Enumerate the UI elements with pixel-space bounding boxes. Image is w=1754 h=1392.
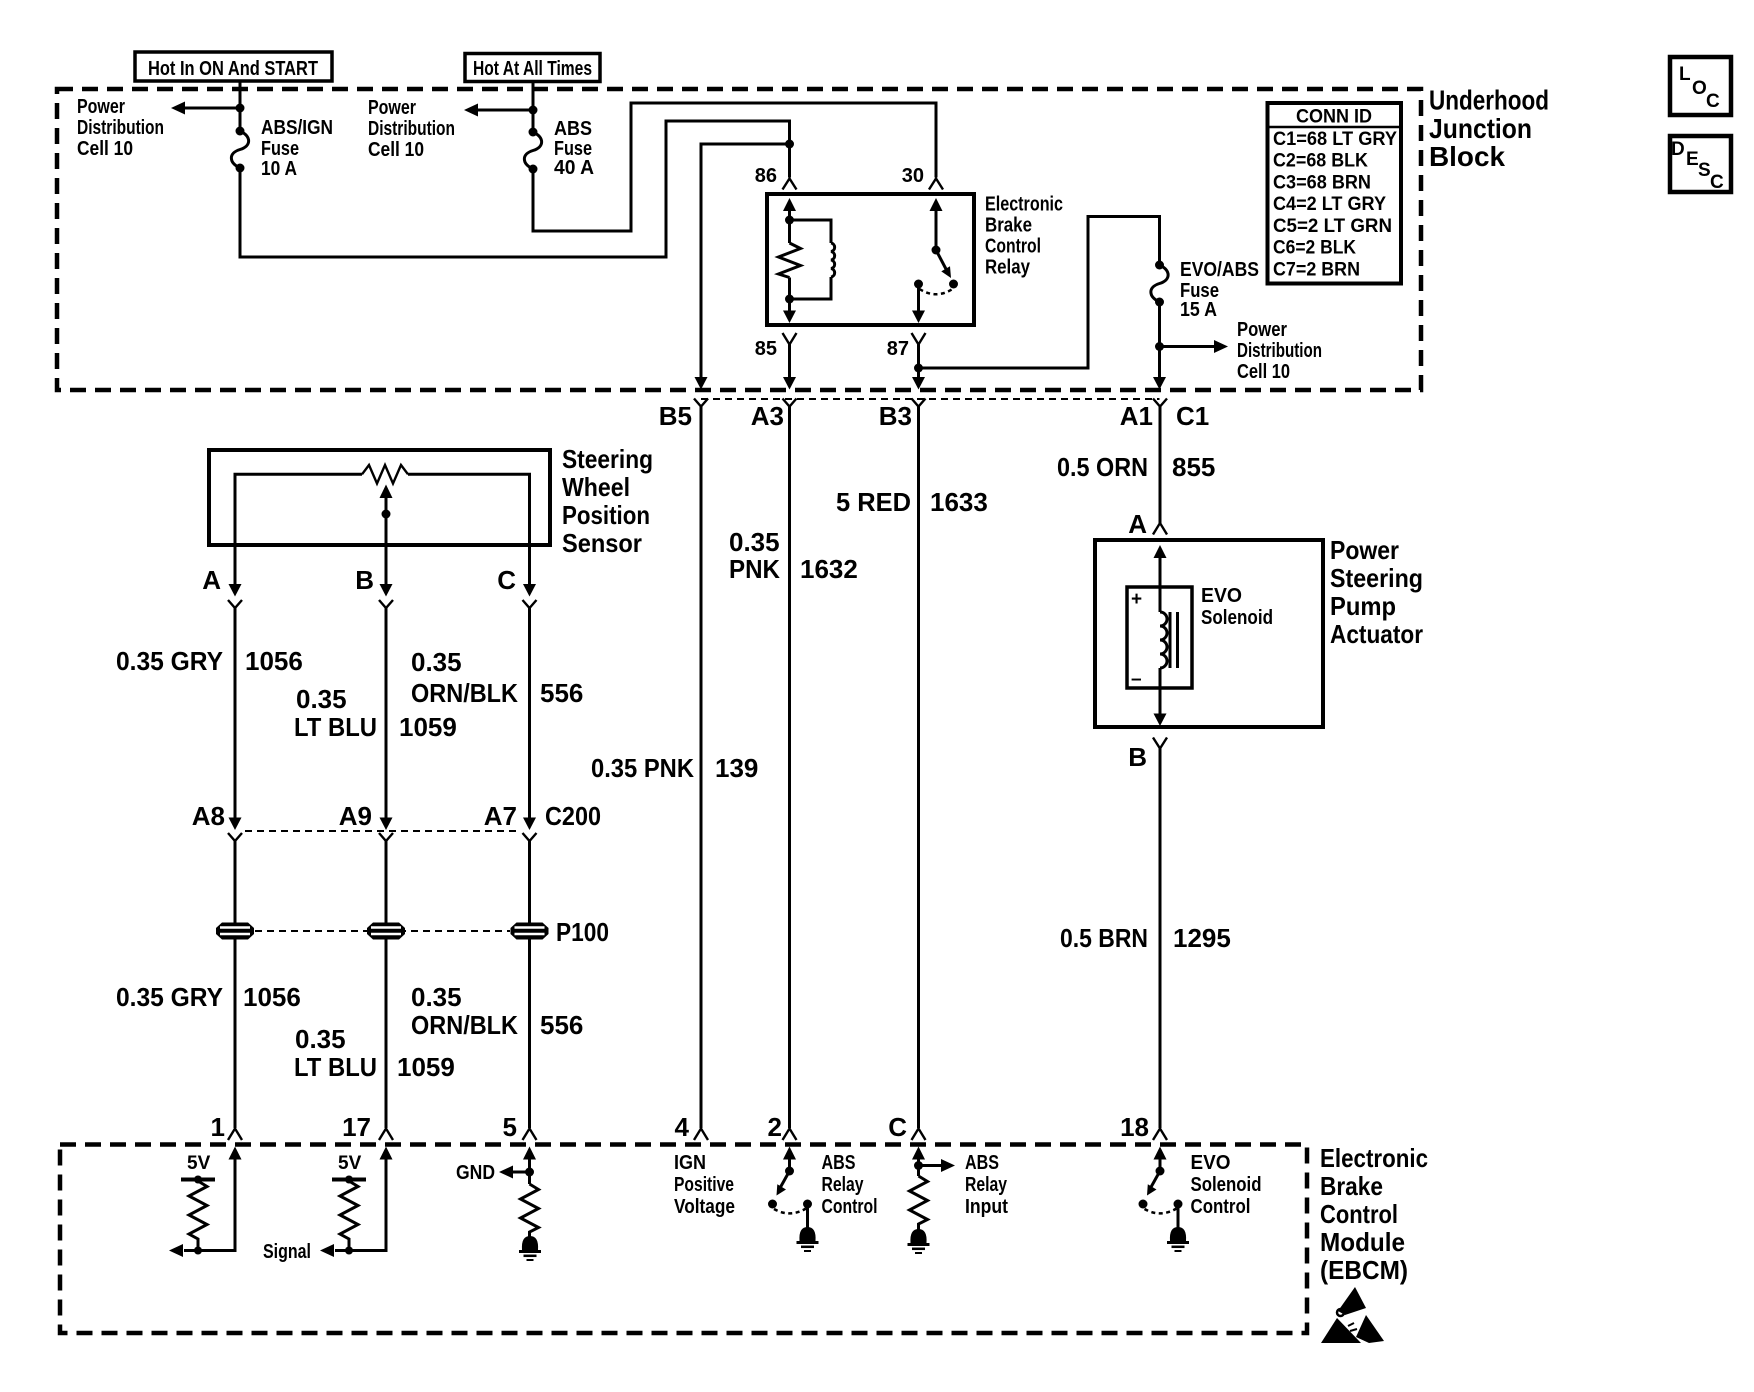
ESD sensitivity symbol — [1321, 1287, 1384, 1343]
wire: branch to B5 — [701, 144, 790, 378]
svg-text:0.35: 0.35 — [411, 647, 462, 677]
svg-text:ABS: ABS — [554, 118, 592, 140]
svg-text:Pump: Pump — [1330, 591, 1396, 621]
fuse F3 EVO/ABS 15A — [1151, 261, 1168, 307]
fuse F1 ABS/IGN 10A — [231, 127, 248, 173]
resistor R2 (pull-up) — [340, 1181, 358, 1251]
svg-text:Input: Input — [965, 1196, 1008, 1218]
arrow down at block border (A3) — [783, 377, 796, 390]
svg-text:ABS/IGN: ABS/IGN — [261, 117, 333, 139]
wire A1/C1 run to actuator — [1159, 407, 1162, 524]
svg-text:0.35: 0.35 — [411, 982, 462, 1012]
connector chevron pin 85 — [783, 333, 797, 345]
relay switch branch: up arrow from pin 30 — [930, 198, 943, 211]
wire down to solenoid — [1159, 554, 1162, 612]
junction dot (branch to B5) — [785, 140, 794, 149]
svg-text:Electronic: Electronic — [985, 194, 1063, 216]
svg-text:556: 556 — [540, 1010, 583, 1040]
5V supply bar — [181, 1178, 215, 1182]
svg-text:B5: B5 — [659, 401, 692, 431]
arrow left (signal) — [320, 1244, 334, 1257]
svg-text:0.35 PNK: 0.35 PNK — [591, 753, 694, 783]
pin 17 interior: up arrow — [380, 1147, 393, 1160]
connector chevron actuator pin A — [1153, 523, 1167, 535]
svg-text:L: L — [1679, 64, 1691, 85]
svg-text:2: 2 — [768, 1112, 782, 1142]
svg-text:A: A — [1128, 509, 1147, 539]
wire A down to EBCM — [234, 841, 237, 1128]
DESC reference box — [1670, 136, 1731, 193]
harness connector row dashed line — [701, 398, 1160, 400]
svg-text:855: 855 — [1172, 452, 1215, 482]
svg-text:Hot In ON And START: Hot In ON And START — [148, 58, 318, 80]
svg-text:1056: 1056 — [245, 646, 303, 676]
svg-text:18: 18 — [1120, 1112, 1149, 1142]
svg-text:Relay: Relay — [985, 257, 1031, 279]
svg-text:C3=68 BRN: C3=68 BRN — [1273, 172, 1371, 193]
wire pin 5 down — [528, 1154, 531, 1184]
svg-text:Positive: Positive — [674, 1174, 734, 1196]
svg-text:Steering: Steering — [1330, 563, 1423, 593]
Underhood Junction Block dashed border — [57, 89, 1421, 390]
svg-text:PNK: PNK — [729, 554, 780, 584]
svg-text:40 A: 40 A — [554, 157, 594, 179]
svg-text:1056: 1056 — [243, 982, 301, 1012]
svg-text:Cell 10: Cell 10 — [77, 138, 133, 160]
potentiometer track — [235, 474, 530, 545]
svg-text:Relay: Relay — [965, 1174, 1008, 1196]
svg-text:1295: 1295 — [1173, 923, 1231, 953]
svg-text:Block: Block — [1429, 141, 1505, 172]
svg-text:ORN/BLK: ORN/BLK — [411, 678, 518, 708]
ground (pin 2) — [797, 1227, 819, 1251]
svg-text:Cell 10: Cell 10 — [1237, 361, 1290, 383]
pin 5 interior: up arrow — [523, 1147, 536, 1160]
svg-text:Control: Control — [985, 236, 1041, 258]
wire down from solenoid — [1159, 668, 1162, 715]
svg-text:0.5 ORN: 0.5 ORN — [1057, 452, 1148, 482]
node: coil top junction dot — [785, 216, 794, 225]
svg-text:A8: A8 — [192, 801, 225, 831]
connector chevron EBCM pin 18 — [1153, 1129, 1167, 1141]
arrow down inside actuator — [1154, 714, 1167, 727]
node: switch pivot dot — [932, 246, 941, 255]
svg-text:1632: 1632 — [800, 554, 858, 584]
arrow down at block border (A1) — [1153, 377, 1166, 390]
svg-text:0.35 GRY: 0.35 GRY — [116, 982, 223, 1012]
svg-text:B: B — [355, 565, 374, 595]
node dot — [345, 1176, 353, 1184]
svg-text:1059: 1059 — [397, 1052, 455, 1082]
splice P100 on wire B — [367, 923, 405, 940]
connector chevron EBCM pin 17 — [379, 1129, 393, 1141]
svg-text:Junction: Junction — [1429, 113, 1532, 144]
wire contact to ground — [806, 1204, 809, 1228]
arrow down wire C at C200 — [523, 818, 536, 831]
wire A down to C200 — [234, 608, 237, 818]
arrow down at block border (B5) — [695, 377, 708, 390]
svg-text:Brake: Brake — [985, 215, 1032, 237]
arrow to Power Distribution (left) — [171, 102, 240, 115]
wire — [788, 207, 791, 243]
svg-text:A3: A3 — [751, 401, 784, 431]
svg-text:(EBCM): (EBCM) — [1320, 1255, 1408, 1285]
svg-text:Power: Power — [77, 96, 125, 118]
svg-text:Electronic: Electronic — [1320, 1143, 1428, 1173]
svg-text:Relay: Relay — [822, 1174, 865, 1196]
relay coil branch: up arrow — [783, 198, 796, 211]
svg-text:17: 17 — [342, 1112, 371, 1142]
wire to switch pivot — [1159, 1154, 1162, 1171]
solenoid coil — [1160, 612, 1167, 668]
svg-text:Solenoid: Solenoid — [1201, 607, 1273, 629]
node: thrown contact dot — [1139, 1200, 1148, 1209]
svg-text:A: A — [202, 565, 221, 595]
switch blade with arrowhead (pin 18) — [1147, 1171, 1160, 1196]
wire contact to ground — [1177, 1204, 1180, 1228]
svg-text:D: D — [1671, 139, 1685, 160]
connector chevron A1/C1 — [1153, 399, 1167, 407]
wire pin 17 down and left — [335, 1154, 386, 1251]
svg-text:EVO: EVO — [1201, 585, 1242, 607]
svg-text:C200: C200 — [545, 801, 601, 831]
connector chevron wire B — [379, 600, 393, 608]
connector chevron A3 — [783, 399, 797, 407]
svg-text:Power: Power — [368, 97, 416, 119]
resistor R4 — [910, 1176, 928, 1230]
splice P100 on wire C — [511, 923, 549, 940]
svg-text:Power: Power — [1330, 535, 1399, 565]
connector chevron EBCM pin 4 — [694, 1129, 708, 1141]
svg-text:GND: GND — [456, 1162, 495, 1184]
EBCM dashed border — [60, 1145, 1307, 1334]
connector chevron pin 86 — [783, 179, 797, 190]
svg-text:EVO/ABS: EVO/ABS — [1180, 259, 1259, 281]
svg-text:0.35: 0.35 — [296, 684, 347, 714]
svg-text:Wheel: Wheel — [562, 472, 630, 502]
node: junction dot to EVO/ABS fuse — [914, 364, 923, 373]
svg-text:Underhood: Underhood — [1429, 85, 1549, 116]
node: pivot dot — [1156, 1167, 1165, 1176]
svg-text:1059: 1059 — [399, 712, 457, 742]
svg-text:C: C — [1706, 91, 1720, 112]
node: pin 87 contact dot — [914, 280, 923, 289]
svg-text:Hot At All Times: Hot At All Times — [473, 58, 592, 80]
pin 1 interior: up arrow — [229, 1147, 242, 1160]
svg-text:Distribution: Distribution — [368, 118, 455, 140]
wire pin C down — [917, 1154, 920, 1176]
svg-text:C: C — [497, 565, 516, 595]
potentiometer resistor zigzag — [362, 465, 408, 484]
dashed travel arc — [920, 289, 953, 294]
svg-text:4: 4 — [675, 1112, 690, 1142]
resistor (relay coil suppression) — [779, 243, 801, 278]
connector chevron B5 — [694, 399, 708, 407]
svg-text:C7=2 BRN: C7=2 BRN — [1273, 259, 1360, 280]
connector chevron actuator pin B — [1153, 738, 1167, 749]
relay coil L1 — [790, 220, 835, 299]
splice P100 on wire A — [216, 923, 254, 940]
arrow left (pin 1 output) — [169, 1244, 183, 1257]
arrow down wire B at C200 — [380, 818, 393, 831]
svg-text:LT BLU: LT BLU — [294, 712, 377, 742]
svg-text:CONN ID: CONN ID — [1296, 107, 1372, 128]
svg-text:85: 85 — [755, 338, 777, 360]
node dot — [194, 1247, 202, 1255]
svg-text:Brake: Brake — [1320, 1171, 1383, 1201]
svg-text:1: 1 — [211, 1112, 225, 1142]
svg-text:0.35: 0.35 — [729, 527, 780, 557]
power source box "Hot At All Times" — [465, 54, 600, 82]
svg-text:5: 5 — [503, 1112, 517, 1142]
junction dot — [236, 104, 245, 113]
Power Steering Pump Actuator box — [1095, 540, 1323, 727]
arrow down wire A — [229, 584, 242, 597]
svg-text:B3: B3 — [879, 401, 912, 431]
svg-text:C4=2 LT GRY: C4=2 LT GRY — [1273, 194, 1386, 215]
svg-text:139: 139 — [715, 753, 758, 783]
svg-text:A7: A7 — [484, 801, 517, 831]
solenoid core bars — [1169, 612, 1172, 668]
arrow down at block border (B3) — [912, 377, 925, 390]
svg-text:S: S — [1698, 160, 1711, 181]
svg-text:30: 30 — [902, 165, 924, 187]
svg-text:B: B — [1128, 742, 1147, 772]
connector chevron A8 — [228, 833, 242, 841]
svg-text:C: C — [888, 1112, 907, 1142]
svg-text:Power: Power — [1237, 319, 1287, 341]
arrow down wire A at C200 — [229, 818, 242, 831]
svg-text:C: C — [1710, 172, 1724, 193]
svg-text:–: – — [1131, 669, 1142, 690]
wire from Hot In ON And START down — [239, 81, 242, 131]
svg-text:C6=2 BLK: C6=2 BLK — [1273, 238, 1356, 259]
svg-text:5V: 5V — [338, 1153, 362, 1174]
Steering Wheel Position Sensor box — [209, 450, 550, 545]
ground (pin 5) — [519, 1236, 541, 1260]
node: coil bottom junction dot — [785, 295, 794, 304]
potentiometer wiper arrow — [380, 485, 393, 546]
ground (pin 18) — [1167, 1227, 1189, 1251]
svg-text:5V: 5V — [187, 1153, 211, 1174]
svg-text:15 A: 15 A — [1180, 299, 1217, 321]
connector chevron pin 87 — [912, 333, 926, 345]
connector chevron A7 — [523, 833, 537, 841]
svg-text:Cell 10: Cell 10 — [368, 139, 424, 161]
wire C from sensor — [528, 545, 531, 585]
connector chevron wire C — [523, 600, 537, 608]
wire to switch pivot — [788, 1154, 791, 1171]
wire C down to C200 — [528, 608, 531, 818]
arrow left GND — [499, 1166, 530, 1179]
svg-text:O: O — [1692, 78, 1707, 99]
pin C interior: up arrow — [912, 1147, 925, 1160]
node dot — [345, 1247, 353, 1255]
svg-text:Control: Control — [1320, 1199, 1398, 1229]
svg-text:0.5 BRN: 0.5 BRN — [1060, 923, 1148, 953]
svg-text:C1: C1 — [1176, 401, 1209, 431]
EVO solenoid box — [1127, 587, 1192, 688]
ground (pin C) — [908, 1229, 930, 1253]
wire: ABS/IGN fuse to relay pin 86 — [240, 121, 790, 257]
svg-text:Distribution: Distribution — [77, 117, 164, 139]
arrow to Power Distribution (middle) — [464, 104, 533, 117]
wire A3 run to EBCM — [788, 407, 791, 1129]
svg-text:E: E — [1686, 149, 1699, 170]
wire contact down — [917, 284, 920, 312]
node: junction dot — [1155, 342, 1164, 351]
fuse F2 ABS 40A — [524, 128, 541, 174]
svg-text:C5=2 LT GRN: C5=2 LT GRN — [1273, 216, 1392, 237]
wire A from sensor — [234, 545, 237, 585]
arrow up inside actuator — [1154, 545, 1167, 558]
5V supply bar — [332, 1178, 366, 1182]
connector chevron pin 30 — [929, 179, 943, 190]
svg-text:Position: Position — [562, 500, 650, 530]
wire below fuse — [1158, 302, 1161, 379]
wire — [935, 207, 938, 250]
arrow down wire C — [523, 584, 536, 597]
svg-text:A1: A1 — [1120, 401, 1153, 431]
wire C down to EBCM — [528, 841, 531, 1128]
svg-text:A9: A9 — [339, 801, 372, 831]
svg-text:Module: Module — [1320, 1227, 1405, 1257]
svg-text:C2=68 BLK: C2=68 BLK — [1273, 151, 1368, 172]
node: thrown contact dot — [768, 1200, 777, 1209]
switch blade with arrowhead (pin 2) — [777, 1171, 790, 1196]
C200 connector dashed line — [245, 830, 519, 832]
svg-text:+: + — [1131, 589, 1142, 610]
node: thrown contact dot — [949, 280, 958, 289]
svg-text:Control: Control — [822, 1196, 878, 1218]
relay K1 Electronic Brake Control Relay box — [767, 194, 974, 325]
wire B5 run to EBCM — [700, 407, 703, 1129]
dashed travel arc — [1145, 1209, 1177, 1214]
wire B down to EBCM pin 18 — [1159, 749, 1162, 1129]
svg-text:0.35: 0.35 — [295, 1024, 346, 1054]
svg-text:IGN: IGN — [674, 1152, 706, 1174]
pin 2 interior: up arrow — [783, 1147, 796, 1160]
node: pivot dot — [785, 1167, 794, 1176]
svg-text:Sensor: Sensor — [562, 528, 642, 558]
svg-text:Actuator: Actuator — [1330, 619, 1423, 649]
wire: pin 87 junction to EVO/ABS fuse — [919, 217, 1160, 369]
svg-text:Steering: Steering — [562, 444, 653, 474]
svg-text:5 RED: 5 RED — [836, 487, 911, 517]
connector chevron EBCM pin C — [912, 1129, 926, 1141]
connector chevron A9 — [379, 833, 393, 841]
wire — [788, 278, 791, 314]
svg-text:0.35 GRY: 0.35 GRY — [116, 646, 223, 676]
arrow down to pin 87 — [912, 311, 925, 324]
switch blade with arrowhead — [936, 250, 951, 278]
svg-text:86: 86 — [755, 165, 777, 187]
svg-text:Solenoid: Solenoid — [1191, 1174, 1262, 1196]
connector chevron B3 — [912, 399, 926, 407]
LOC reference box — [1670, 57, 1731, 115]
wire: ABS fuse to relay pin 30 — [533, 103, 936, 231]
wire pin 1 down and left — [184, 1154, 235, 1251]
wire B3 run to EBCM — [917, 407, 920, 1129]
node dot — [914, 1161, 923, 1170]
svg-text:ABS: ABS — [965, 1152, 999, 1174]
connector chevron EBCM pin 2 — [783, 1129, 797, 1141]
arrow right to Power Distribution — [1160, 340, 1229, 353]
power source box "Hot In ON And START" — [135, 52, 332, 81]
svg-text:P100: P100 — [556, 917, 609, 947]
arrow down to pin 85 — [783, 311, 796, 324]
svg-text:87: 87 — [887, 338, 909, 360]
node: fixed contact dot — [803, 1200, 812, 1209]
junction dot — [529, 106, 538, 115]
wire pin 85 down — [788, 345, 791, 379]
arrow down wire B — [380, 584, 393, 597]
svg-text:C1=68 LT GRY: C1=68 LT GRY — [1273, 129, 1397, 150]
node: fixed contact dot — [1174, 1200, 1183, 1209]
svg-text:Signal: Signal — [263, 1241, 311, 1263]
svg-text:Control: Control — [1191, 1196, 1251, 1218]
svg-text:EVO: EVO — [1191, 1152, 1231, 1174]
wire B from sensor — [385, 545, 388, 585]
wire from Hot At All Times down — [532, 81, 535, 132]
P100 dashed line — [255, 930, 510, 932]
connector chevron wire A — [228, 600, 242, 608]
svg-text:ORN/BLK: ORN/BLK — [411, 1010, 518, 1040]
wire B down to C200 — [385, 608, 388, 818]
arrow right (ABS relay input) — [919, 1159, 956, 1172]
wire B down to EBCM — [385, 841, 388, 1128]
CONN ID table — [1268, 103, 1402, 284]
pin 18 interior: up arrow — [1154, 1147, 1167, 1160]
dashed travel arc — [774, 1209, 806, 1214]
svg-text:Voltage: Voltage — [674, 1196, 735, 1218]
node dot — [194, 1176, 202, 1184]
svg-text:1633: 1633 — [930, 487, 988, 517]
svg-text:556: 556 — [540, 678, 583, 708]
svg-text:10 A: 10 A — [261, 158, 297, 180]
connector chevron EBCM pin 1 — [228, 1129, 242, 1141]
svg-text:Distribution: Distribution — [1237, 340, 1322, 362]
svg-text:LT BLU: LT BLU — [294, 1052, 377, 1082]
connector chevron EBCM pin 5 — [523, 1129, 537, 1141]
svg-text:ABS: ABS — [822, 1152, 856, 1174]
wire pin 87 down — [917, 345, 920, 379]
svg-text:Fuse: Fuse — [261, 138, 299, 160]
resistor R3 — [521, 1184, 539, 1237]
resistor R1 (pull-up) — [189, 1181, 207, 1251]
node dot — [525, 1168, 534, 1177]
